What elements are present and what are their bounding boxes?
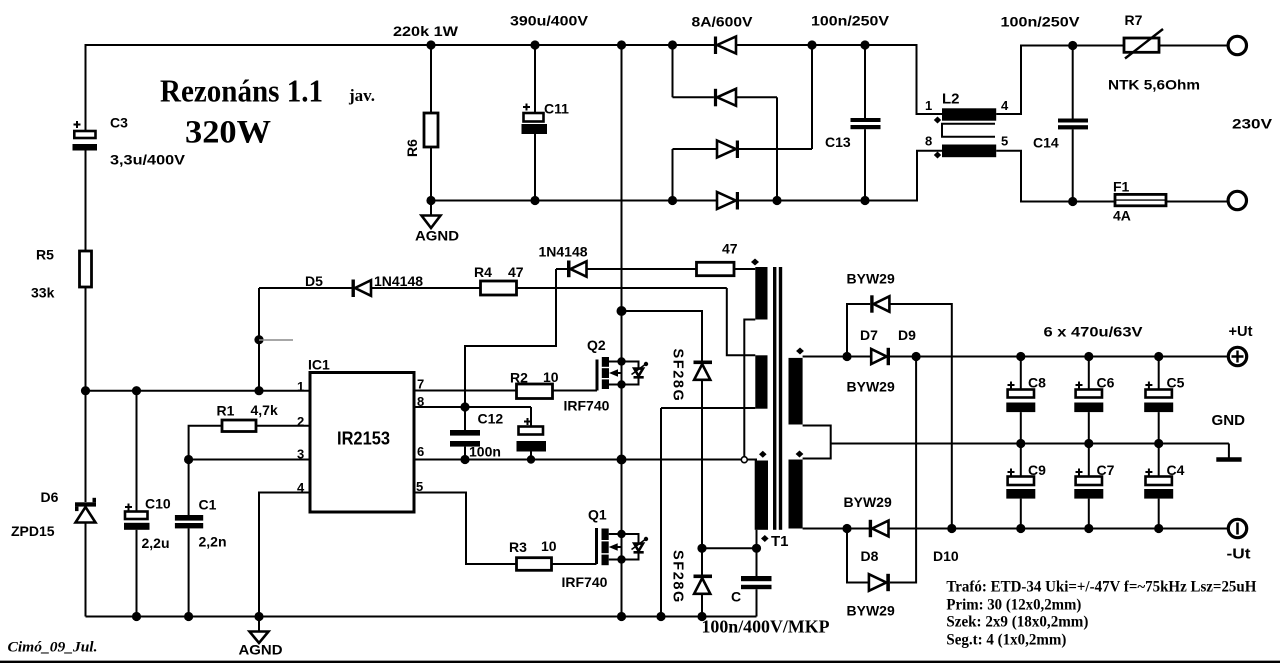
capacitor C13 bbox=[825, 45, 881, 201]
L2 phase dot top bbox=[934, 117, 941, 124]
wire descender to bottom rail bbox=[660, 408, 662, 617]
svg-text:47: 47 bbox=[508, 264, 524, 280]
capacitor C8 bbox=[1006, 357, 1046, 444]
wire GND net bbox=[831, 443, 1229, 445]
node bridge bottom left bbox=[668, 196, 677, 205]
svg-text:5: 5 bbox=[1001, 134, 1008, 149]
svg-text:4A: 4A bbox=[1113, 208, 1131, 224]
capacitor C10 2,2u bbox=[124, 391, 171, 617]
svg-text:C8: C8 bbox=[1028, 375, 1046, 391]
node C10 bottom rail bbox=[132, 612, 141, 621]
wire bottom rail bbox=[86, 616, 757, 618]
svg-text:Q2: Q2 bbox=[587, 337, 606, 353]
ground AGND bottom bbox=[239, 617, 283, 658]
svg-text:Q1: Q1 bbox=[588, 507, 607, 523]
svg-text:SF28G: SF28G bbox=[670, 349, 686, 403]
node +Ut D8 branch bbox=[912, 352, 921, 361]
wire bar1 bottom link bbox=[744, 320, 755, 457]
transistor Q2 IRF740 bbox=[564, 337, 649, 414]
ground AGND top bbox=[415, 201, 459, 244]
capacitor C3 bbox=[73, 115, 186, 168]
svg-text:1N4148: 1N4148 bbox=[539, 244, 588, 260]
svg-text:33k: 33k bbox=[31, 285, 55, 301]
resistor R2 10 bbox=[510, 369, 597, 399]
wire left column D6 to bottom rail bbox=[85, 523, 87, 617]
svg-text:R5: R5 bbox=[36, 247, 54, 263]
svg-text:3,3u/400V: 3,3u/400V bbox=[110, 152, 186, 168]
node C11 top bbox=[530, 40, 539, 49]
wire top rail left bbox=[86, 45, 943, 114]
node pin8 bootstrap C12 bbox=[460, 402, 469, 411]
L2 winding link bbox=[942, 124, 995, 137]
fuse F1 4A bbox=[1113, 179, 1166, 224]
T1 phase dot bar3 top bbox=[759, 451, 767, 458]
bridge diode row4 bbox=[717, 192, 739, 210]
node R1 C1 pin3 bbox=[184, 455, 193, 464]
transformer T1 primary bar3 bbox=[755, 461, 768, 530]
node bridge right top bbox=[807, 40, 816, 49]
transformer T1 primary bar1 bbox=[755, 267, 767, 320]
wire pin6 Vs midpoint bbox=[414, 459, 757, 461]
svg-text:IR2153: IR2153 bbox=[337, 428, 390, 449]
wire secondary center tap step bbox=[803, 426, 831, 459]
wire L2 pin4 riser to top right rail bbox=[996, 46, 1124, 115]
wire pin5 to R3 bbox=[414, 493, 517, 565]
svg-text:SF28G: SF28G bbox=[670, 550, 686, 604]
T1 phase dot secondary bottom bbox=[796, 451, 804, 458]
svg-text:C5: C5 bbox=[1167, 375, 1185, 391]
resistor R6 bbox=[404, 113, 438, 157]
capacitor C1 2,2n bbox=[175, 460, 227, 617]
svg-text:100n/250V: 100n/250V bbox=[811, 13, 890, 29]
capacitor C14 bbox=[1033, 46, 1088, 202]
svg-text:C11: C11 bbox=[544, 101, 569, 117]
node pin4 bottom rail bbox=[254, 612, 263, 621]
svg-text:IC1: IC1 bbox=[308, 357, 330, 373]
L2 top winding bbox=[942, 108, 996, 120]
node Q1 source bottom rail bbox=[617, 612, 626, 621]
transformer T1 secondary bottom bar bbox=[789, 460, 803, 529]
diode 1N4148 bootstrap bbox=[539, 244, 697, 278]
node pin1 C10 bbox=[132, 386, 141, 395]
node C1 bottom rail bbox=[184, 612, 193, 621]
diode SF28G top bbox=[694, 361, 713, 575]
svg-text:C6: C6 bbox=[1097, 375, 1115, 391]
wire half bridge column bbox=[621, 45, 623, 617]
transistor Q1 IRF740 bbox=[562, 507, 649, 591]
svg-text:1: 1 bbox=[297, 379, 304, 394]
ground GND symbol bbox=[1216, 444, 1241, 460]
wire F1 to terminal bbox=[1166, 201, 1228, 203]
svg-text:C4: C4 bbox=[1167, 462, 1185, 478]
resistor 47 gate hv bbox=[697, 241, 756, 276]
wire clamp branch top to SF28G bbox=[622, 311, 703, 361]
node C13 bottom bbox=[860, 196, 869, 205]
svg-text:BYW29: BYW29 bbox=[847, 603, 895, 619]
svg-text:R4: R4 bbox=[474, 264, 492, 280]
thermistor R7 NTK 5,6Ohm bbox=[1108, 12, 1200, 93]
node C4 bottom bbox=[1154, 524, 1163, 533]
node C12 pin6 bbox=[460, 455, 469, 464]
svg-text:47: 47 bbox=[722, 241, 738, 257]
svg-text:D9: D9 bbox=[898, 327, 916, 343]
diode D5 1N4148 bbox=[259, 273, 481, 391]
svg-text:100n/400V/MKP: 100n/400V/MKP bbox=[702, 617, 830, 637]
wire pin7 to R2 bbox=[414, 390, 517, 392]
node bridge top left bbox=[668, 40, 677, 49]
wire faint stub bbox=[259, 339, 293, 341]
node capC T1 link bbox=[752, 544, 761, 553]
diode D7 bbox=[871, 348, 890, 365]
svg-text:C1: C1 bbox=[199, 497, 217, 513]
svg-text:R2: R2 bbox=[510, 370, 528, 386]
node C9 bottom bbox=[1016, 524, 1025, 533]
node SF28G link bbox=[697, 544, 706, 553]
terminal -Ut bbox=[1228, 519, 1246, 537]
capacitor C9 bbox=[1006, 444, 1046, 529]
transformer T1 primary bar2 bbox=[755, 355, 767, 408]
svg-text:2,2u: 2,2u bbox=[142, 535, 170, 551]
wire left column top (to C3) bbox=[85, 44, 87, 131]
svg-text:NTK 5,6Ohm: NTK 5,6Ohm bbox=[1108, 77, 1200, 93]
node half bridge top rail bbox=[617, 40, 626, 49]
capacitor C resonant bbox=[731, 548, 772, 616]
svg-text:220k 1W: 220k 1W bbox=[393, 23, 459, 39]
node C11 bottom bbox=[530, 196, 539, 205]
bridge riser mid (row2 to bottom rail) bbox=[776, 97, 778, 200]
svg-text:L2: L2 bbox=[942, 91, 960, 108]
svg-text:6 x 470u/63V: 6 x 470u/63V bbox=[1044, 324, 1144, 340]
svg-text:C12: C12 bbox=[478, 411, 504, 427]
svg-text:Prim: 30 (12x0,2mm): Prim: 30 (12x0,2mm) bbox=[946, 597, 1081, 614]
node bridge mid bottom bbox=[772, 196, 781, 205]
node C2 pin6 bbox=[527, 455, 535, 463]
svg-text:Seg.t: 4 (1x0,2mm): Seg.t: 4 (1x0,2mm) bbox=[946, 632, 1066, 649]
wire L2 pin5 to bottom right rail bbox=[996, 151, 1115, 202]
svg-text:C14: C14 bbox=[1033, 135, 1059, 151]
node pin1 D5 column bbox=[254, 386, 263, 395]
svg-text:100n/250V: 100n/250V bbox=[1001, 14, 1081, 30]
svg-text:4,7k: 4,7k bbox=[251, 402, 278, 418]
T1 phase dot secondary top bbox=[796, 348, 804, 355]
resistor R1 4,7k bbox=[189, 402, 310, 460]
svg-text:GND: GND bbox=[1212, 412, 1246, 429]
T1 phase dot primary top bbox=[751, 259, 759, 266]
svg-text:D10: D10 bbox=[933, 548, 959, 564]
svg-text:R7: R7 bbox=[1125, 12, 1143, 28]
wire -Ut rail bbox=[803, 528, 1228, 530]
svg-text:D5: D5 bbox=[305, 273, 323, 289]
terminal 230V neutral bbox=[1228, 191, 1246, 209]
capacitor C11 bbox=[522, 45, 570, 201]
T1 core lines bbox=[773, 267, 776, 530]
svg-text:C3: C3 bbox=[110, 115, 128, 131]
svg-text:jav.: jav. bbox=[348, 86, 375, 105]
svg-text:C10: C10 bbox=[145, 496, 171, 512]
wire T1 primary bottom link bbox=[702, 547, 757, 549]
node Q2 drain bbox=[617, 357, 625, 365]
capacitor C6 bbox=[1074, 357, 1114, 444]
node C14 bottom bbox=[1068, 197, 1077, 206]
node C6 top bbox=[1084, 352, 1093, 361]
transformer T1 secondary top bar bbox=[789, 358, 803, 425]
bridge diode row1 bbox=[714, 37, 736, 55]
node C8 top bbox=[1016, 352, 1025, 361]
node C8 gnd bbox=[1016, 439, 1025, 448]
wire R6 top to rail bbox=[430, 45, 432, 113]
svg-text:8A/600V: 8A/600V bbox=[692, 14, 754, 30]
L2 bottom winding bbox=[942, 145, 996, 158]
node D5 column bootstrap stub bbox=[254, 335, 263, 344]
node SF28G bottom rail bbox=[697, 612, 706, 621]
wire second rail (mains dc) bbox=[431, 151, 942, 201]
node descender bottom rail bbox=[656, 612, 665, 621]
svg-text:Cimó_09_Jul.: Cimó_09_Jul. bbox=[8, 640, 98, 656]
diode D9 loop bbox=[847, 295, 952, 528]
capacitor C12 100n bbox=[450, 407, 503, 460]
bridge diode row3 bbox=[673, 141, 813, 159]
svg-text:4: 4 bbox=[297, 480, 305, 495]
resistor R3 10 bbox=[509, 538, 597, 570]
node C7 bottom bbox=[1084, 524, 1093, 533]
T1 phase dot bar3 bottom bbox=[761, 535, 769, 542]
svg-text:C9: C9 bbox=[1028, 462, 1046, 478]
svg-text:IRF740: IRF740 bbox=[562, 574, 608, 590]
wire left column R5 to D6 bbox=[85, 287, 87, 502]
wire pin1 Vcc rail bbox=[86, 390, 311, 392]
svg-text:230V: 230V bbox=[1232, 116, 1273, 132]
svg-text:1: 1 bbox=[925, 98, 932, 113]
wire bar2 bottom to rail descender bbox=[661, 407, 755, 409]
svg-text:R3: R3 bbox=[509, 539, 527, 555]
node Q1 drain bbox=[617, 530, 625, 538]
svg-text:AGND: AGND bbox=[415, 229, 459, 244]
node R6 bottom bbox=[426, 196, 435, 205]
wire R7 to terminal bbox=[1159, 45, 1228, 47]
svg-text:Rezonáns 1.1: Rezonáns 1.1 bbox=[160, 73, 323, 109]
node open circle crossing bbox=[741, 457, 747, 463]
bridge diode row2 bbox=[673, 89, 778, 107]
diode D8 loop bbox=[847, 357, 916, 592]
wire pin8 bbox=[414, 406, 531, 408]
node Q1 source bbox=[617, 555, 625, 563]
node half bridge midpoint bbox=[617, 455, 627, 465]
node -Ut D9 branch bbox=[947, 524, 956, 533]
node pin1 left column bbox=[81, 386, 90, 395]
capacitor C2 bootstrap electrolytic bbox=[517, 407, 547, 460]
svg-text:7: 7 bbox=[417, 377, 424, 392]
wire pin3 bbox=[189, 459, 310, 461]
svg-text:390u/400V: 390u/400V bbox=[510, 13, 589, 29]
svg-text:BYW29: BYW29 bbox=[847, 271, 895, 287]
svg-text:2,2n: 2,2n bbox=[199, 534, 227, 550]
node clamp branch top bbox=[617, 306, 627, 316]
capacitor C5 bbox=[1144, 357, 1184, 444]
svg-text:8: 8 bbox=[925, 134, 932, 149]
resistor R5 33k bbox=[31, 247, 92, 301]
wire +Ut rail bbox=[803, 356, 1228, 358]
wire R6 bottom to AGND node bbox=[430, 147, 432, 201]
svg-text:R6: R6 bbox=[404, 139, 420, 157]
terminal +Ut bbox=[1228, 347, 1246, 365]
wire R4 tap descender bbox=[727, 288, 756, 355]
terminal 230V live bbox=[1228, 36, 1246, 54]
svg-text:C: C bbox=[731, 589, 741, 605]
svg-text:R1: R1 bbox=[217, 403, 235, 419]
capacitor C7 bbox=[1074, 444, 1114, 529]
svg-text:10: 10 bbox=[543, 369, 559, 385]
svg-text:4: 4 bbox=[1001, 98, 1009, 113]
svg-text:T1: T1 bbox=[771, 533, 789, 550]
resistor R4 47 bbox=[474, 264, 727, 295]
node -Ut D8 branch bbox=[842, 524, 851, 533]
svg-text:BYW29: BYW29 bbox=[844, 494, 892, 510]
L2 phase dot bottom bbox=[934, 152, 941, 159]
svg-text:F1: F1 bbox=[1113, 179, 1130, 195]
node C13 top bbox=[860, 40, 869, 49]
svg-text:100n: 100n bbox=[469, 444, 501, 460]
diode D10 inline bbox=[869, 520, 889, 537]
svg-text:+Ut: +Ut bbox=[1229, 323, 1253, 340]
svg-text:6: 6 bbox=[417, 444, 424, 459]
wire bootstrap to pin8 bbox=[465, 269, 556, 407]
svg-text:AGND: AGND bbox=[239, 643, 283, 658]
node C6 gnd bbox=[1084, 439, 1093, 448]
node C5 top bbox=[1154, 352, 1163, 361]
diode SF28G bottom bbox=[694, 575, 713, 617]
svg-text:3: 3 bbox=[297, 447, 304, 462]
node +Ut D9 branch bbox=[842, 352, 851, 361]
svg-text:320W: 320W bbox=[185, 115, 271, 151]
zener D6 ZPD15 bbox=[11, 489, 96, 539]
svg-text:-Ut: -Ut bbox=[1227, 546, 1251, 563]
node R6 top bbox=[426, 40, 435, 49]
border bottom line bbox=[0, 661, 1280, 663]
node C5 gnd bbox=[1154, 439, 1163, 448]
svg-text:1N4148: 1N4148 bbox=[374, 273, 423, 289]
bridge riser left top bbox=[672, 45, 674, 97]
svg-text:D7: D7 bbox=[860, 327, 878, 343]
bridge riser right (row3 to top rail) bbox=[811, 45, 813, 149]
svg-text:IRF740: IRF740 bbox=[564, 398, 610, 414]
svg-text:C7: C7 bbox=[1097, 462, 1115, 478]
svg-text:2: 2 bbox=[297, 414, 304, 429]
wire pin4 to AGND bbox=[259, 493, 310, 617]
capacitor C4 bbox=[1144, 444, 1184, 529]
wire T1 bar3 stub bbox=[756, 530, 758, 549]
bridge riser left bottom bbox=[672, 149, 674, 201]
svg-text:ZPD15: ZPD15 bbox=[11, 523, 55, 539]
wire left column C3 to R5 bbox=[85, 151, 87, 252]
svg-text:C13: C13 bbox=[825, 134, 851, 150]
svg-text:D8: D8 bbox=[861, 548, 879, 564]
node Q2 source bbox=[617, 380, 625, 388]
svg-text:BYW29: BYW29 bbox=[847, 379, 895, 395]
IC op U1 IR2153 box bbox=[308, 357, 414, 513]
svg-text:Szek: 2x9 (18x0,2mm): Szek: 2x9 (18x0,2mm) bbox=[946, 614, 1088, 631]
svg-text:Trafó: ETD-34 Uki=+/-47V f=~7: Trafó: ETD-34 Uki=+/-47V f=~75kHz Lsz=25… bbox=[946, 579, 1257, 596]
svg-text:10: 10 bbox=[541, 538, 557, 554]
svg-text:D6: D6 bbox=[41, 489, 59, 505]
node C14 top bbox=[1068, 41, 1077, 50]
